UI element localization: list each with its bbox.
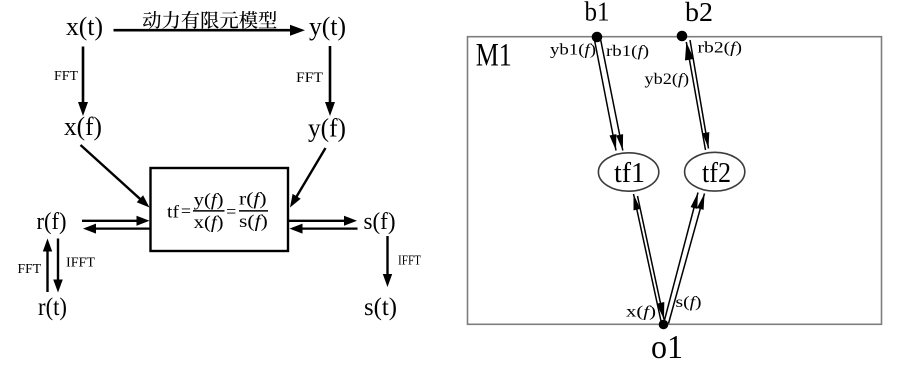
svg-text:yb1(f): yb1(f) (550, 42, 596, 59)
svg-text:s(f): s(f) (239, 211, 268, 232)
svg-text:tf: tf (167, 202, 179, 222)
svg-text:tf2: tf2 (702, 158, 731, 189)
svg-text:yb2(f): yb2(f) (645, 71, 690, 88)
svg-text:IFFT: IFFT (66, 256, 95, 271)
svg-text:s(f): s(f) (364, 209, 396, 235)
svg-text:FFT: FFT (54, 69, 78, 84)
svg-text:=: = (181, 201, 191, 221)
svg-text:y(f): y(f) (194, 190, 224, 211)
svg-text:tf1: tf1 (614, 158, 645, 189)
svg-text:FFT: FFT (296, 70, 323, 86)
svg-text:y(t): y(t) (309, 11, 346, 41)
svg-text:s(t): s(t) (364, 294, 397, 321)
svg-text:x(t): x(t) (66, 12, 103, 41)
svg-text:r(f): r(f) (239, 189, 267, 210)
svg-text:o1: o1 (651, 329, 683, 362)
svg-text:s(f): s(f) (676, 294, 702, 311)
svg-text:=: = (226, 201, 236, 221)
svg-text:r(t): r(t) (38, 294, 67, 321)
svg-text:x(f): x(f) (194, 212, 224, 233)
svg-text:M1: M1 (476, 38, 512, 74)
svg-text:IFFT: IFFT (398, 254, 421, 269)
svg-text:x(f): x(f) (64, 112, 102, 141)
svg-text:rb1(f): rb1(f) (606, 43, 649, 60)
svg-text:rb2(f): rb2(f) (698, 40, 743, 57)
svg-text:r(f): r(f) (37, 209, 67, 235)
svg-text:b1: b1 (585, 0, 610, 27)
svg-text:x(f): x(f) (626, 304, 656, 321)
svg-text:y(f): y(f) (308, 114, 346, 143)
svg-text:FFT: FFT (18, 262, 42, 277)
svg-text:b2: b2 (685, 0, 713, 27)
